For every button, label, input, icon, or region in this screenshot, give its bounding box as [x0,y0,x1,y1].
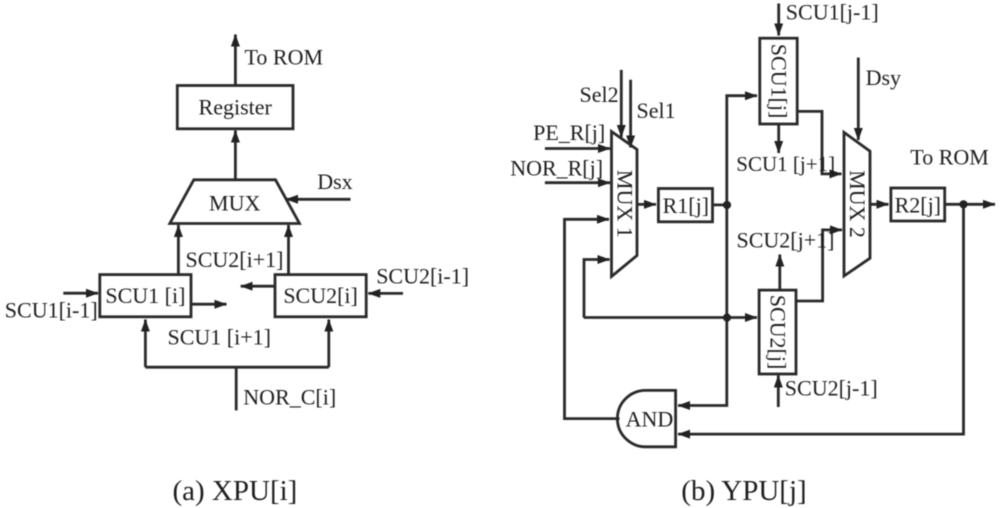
svg-text:Sel2: Sel2 [580,82,619,107]
wire: R1[j] output to node [713,203,727,206]
svg-text:(b) YPU[j]: (b) YPU[j] [681,475,806,507]
wire: PE_R[j] input into MUX 1 [545,147,610,150]
mux MUX 2 [844,132,870,276]
block SCU1[j] [760,38,797,124]
wire: MUX output to Register [234,131,237,180]
svg-text:SCU1[i-1]: SCU1[i-1] [5,298,98,323]
svg-text:Dsx: Dsx [317,169,352,194]
wire: R1 node vertical down to AND input [678,205,727,406]
register R2[j] [891,188,945,221]
wire: SCU1[i-1] input into SCU1[i] [63,292,98,295]
and-gate AND [617,390,675,446]
register REG [177,86,293,129]
wire: NOR_C[i] bus riser into SCU1[i] [144,320,147,368]
svg-text:SCU1 [i]: SCU1 [i] [105,283,185,308]
wire: MUX 2 output to R2[j] [870,203,889,206]
svg-text:MUX 2: MUX 2 [845,170,870,238]
wire: NOR_C[i] bus riser into SCU2[i] [327,320,330,368]
wire: Sel1 select input into MUX 1 [629,80,632,148]
wire: SCU2[i] output up to MUX [287,225,290,275]
svg-text:SCU1 [j+1]: SCU1 [j+1] [736,152,835,176]
wire: Dsx select input into MUX [286,198,351,201]
svg-text:SCU2[i]: SCU2[i] [283,283,358,308]
svg-text:NOR_C[i]: NOR_C[i] [243,385,336,410]
mux MUX (XPU) [170,180,300,224]
mux MUX 1 [612,132,638,277]
wire: SCU2[j] output up to SCU2[j+1] [778,255,781,291]
wire: SCU1[j-1] input into SCU1[j] [777,4,780,36]
wire: MUX 1 output to R1[j] [638,203,657,206]
wire: NOR_C[i] horizontal bus [145,366,328,369]
svg-text:MUX: MUX [209,191,260,216]
node: junction after R1[j] [723,201,731,209]
wire: SCU1[i] output up to MUX [177,225,180,275]
block SCU2[j] [759,290,796,374]
svg-text:SCU1[j-1]: SCU1[j-1] [786,0,879,24]
svg-text:R2[j]: R2[j] [895,193,941,218]
wire: SCU1[i] output to right (to SCU2) [191,303,227,306]
block SCU2[i] [275,275,366,317]
wire: SCU2[i] output to left (to SCU1) [241,285,275,288]
svg-text:SCU2[j]: SCU2[j] [766,295,791,370]
wire: SCU2[i-1] input into SCU2[i] [368,292,403,295]
svg-text:SCU2[j+1]: SCU2[j+1] [737,228,835,253]
svg-text:R1[j]: R1[j] [663,193,709,218]
wire: AND output feedback into MUX 1 [565,219,620,418]
wire: R1[j] node up into SCU1[j] left input [727,96,757,205]
node: junction after R2[j] [959,200,967,208]
svg-text:SCU1 [i+1]: SCU1 [i+1] [168,325,271,350]
wire: Sel2 select input into MUX 1 [620,70,623,137]
wire: SCU2[j-1] input into SCU2[j] [777,376,780,408]
svg-text:AND: AND [626,407,674,432]
svg-text:To ROM: To ROM [245,45,324,70]
wire: bus riser into MUX 1 lower input [584,260,610,318]
wire: Register output to ROM [234,35,237,86]
svg-text:Sel1: Sel1 [637,98,676,123]
wire: R2[j] output to ROM [945,203,995,206]
svg-text:Register: Register [199,95,273,120]
svg-text:Dsy: Dsy [866,65,901,90]
svg-text:SCU2[j-1]: SCU2[j-1] [785,376,878,401]
wire: R2 node feedback into AND lower input [678,204,964,434]
svg-text:PE_R[j]: PE_R[j] [533,120,605,145]
svg-text:SCU1[j]: SCU1[j] [767,44,792,119]
block SCU1[i] [100,275,191,317]
svg-text:SCU2[i-1]: SCU2[i-1] [376,264,469,289]
wire: SCU1[j] output right into MUX 2 [797,111,841,173]
wire: NOR_R[j] input into MUX 1 [545,181,610,184]
svg-text:To ROM: To ROM [910,145,989,170]
wire: Dsy select input into MUX 2 [857,58,860,141]
svg-text:SCU2[i+1]: SCU2[i+1] [186,247,284,272]
svg-text:NOR_R[j]: NOR_R[j] [510,156,603,181]
wire: NOR_C[i] stem [235,367,238,410]
svg-text:MUX 1: MUX 1 [613,170,638,238]
wire: horizontal bus into SCU2[j] [584,316,757,319]
wire: SCU1[j] output down to SCU1[j+1] [777,124,780,153]
svg-text:(a) XPU[i]: (a) XPU[i] [173,475,298,507]
node: junction on SCU2 bus [723,314,731,322]
wire: SCU2[j] output right into MUX 2 [796,230,842,301]
register R1[j] [658,189,712,222]
